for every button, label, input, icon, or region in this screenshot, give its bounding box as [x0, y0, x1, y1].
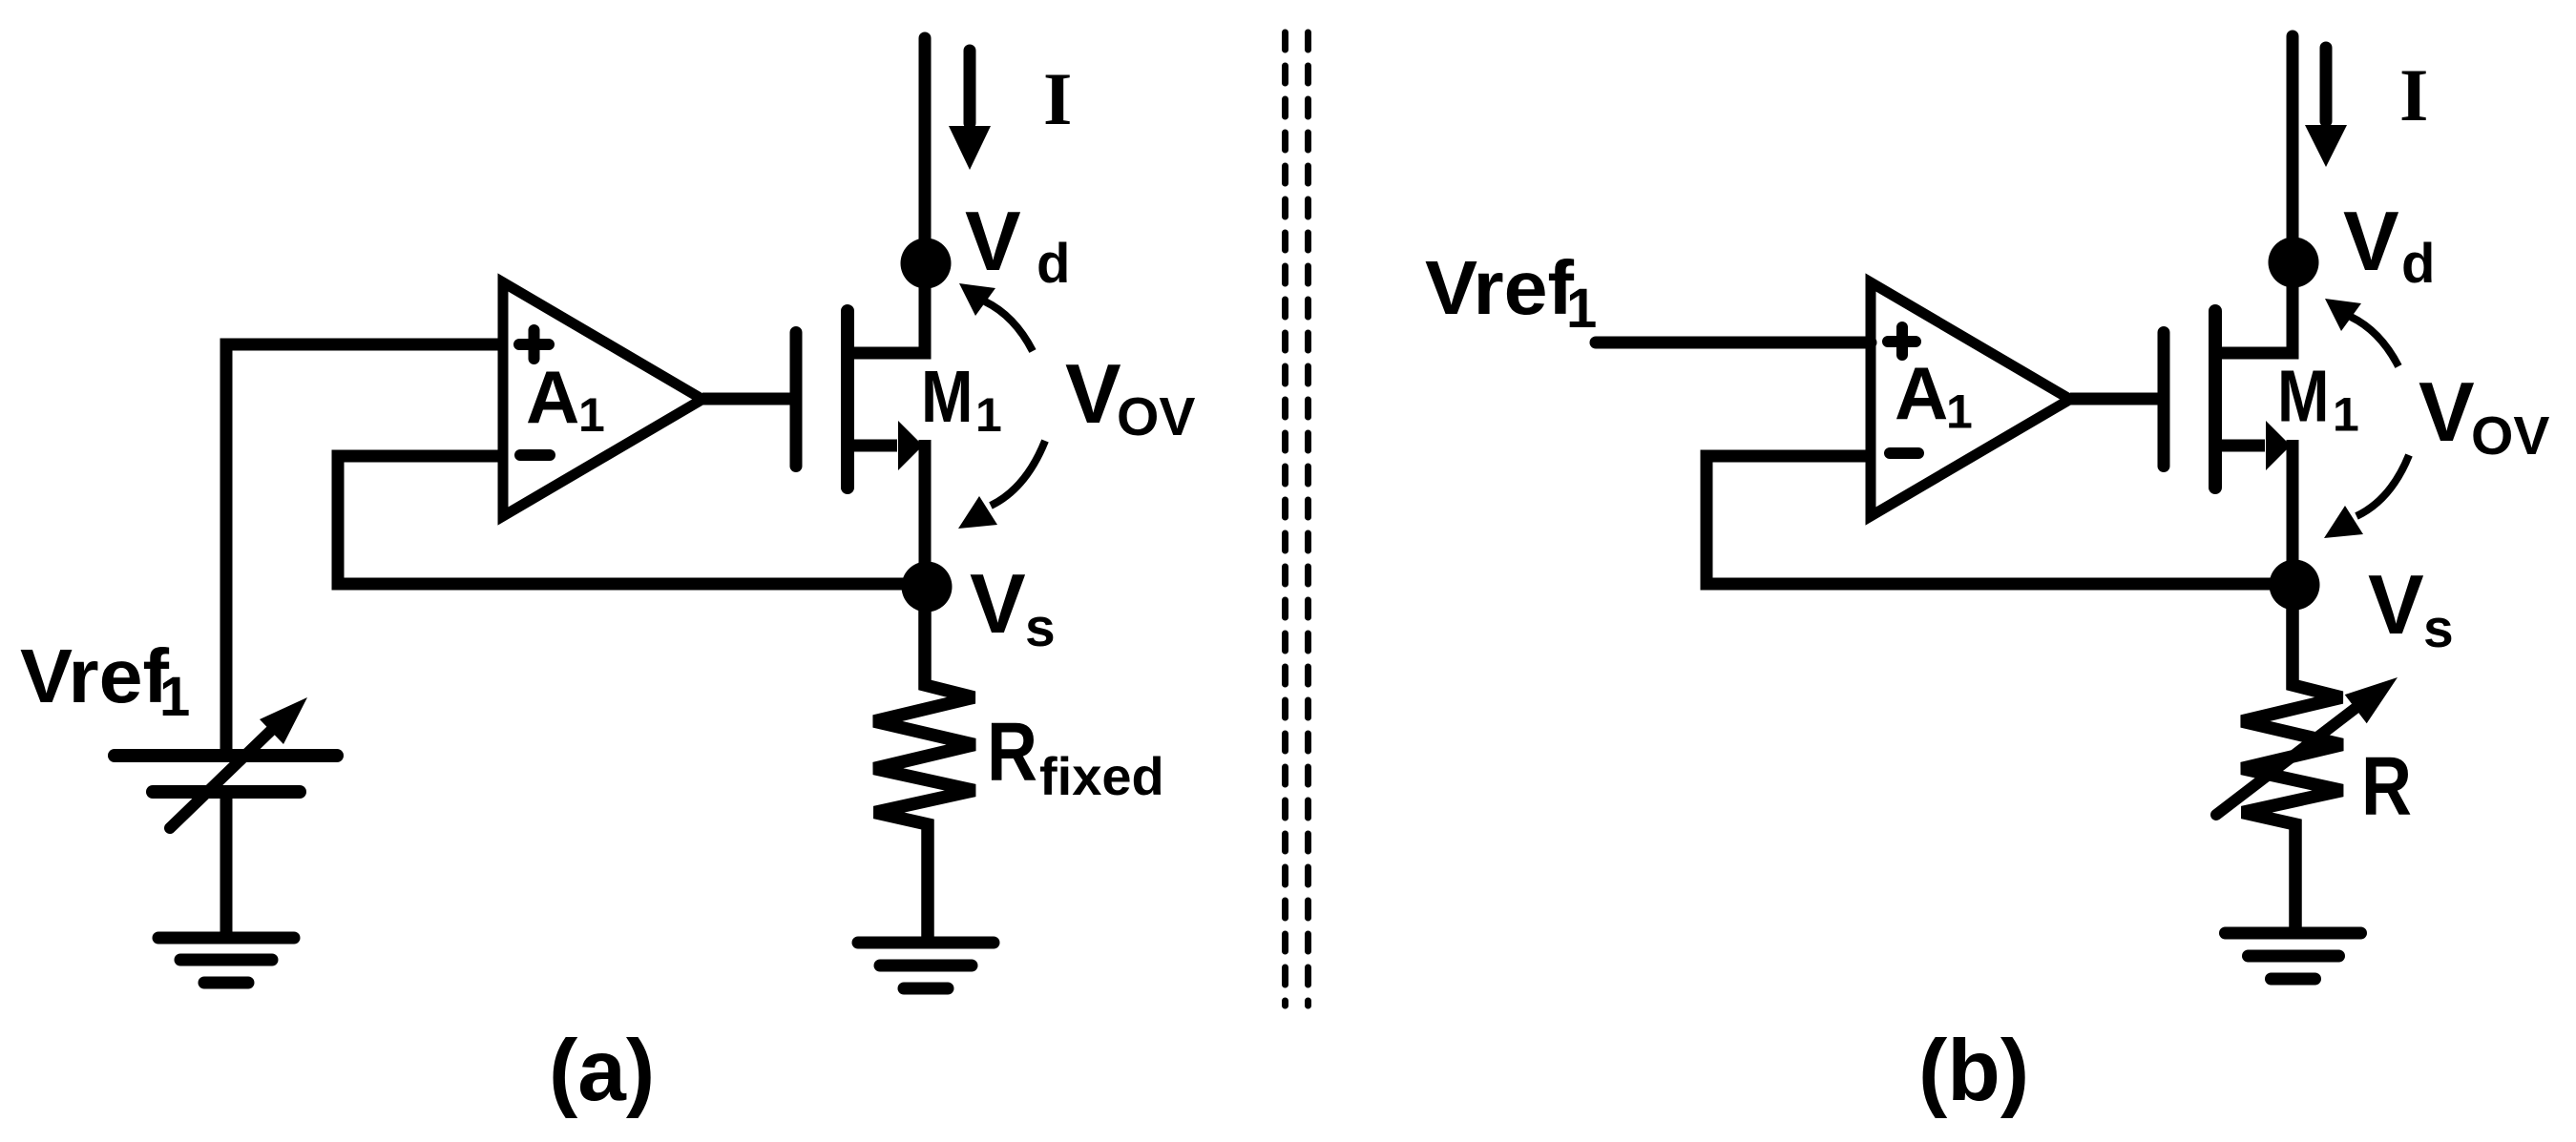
- current arrow I (a): [949, 51, 991, 170]
- wire: source to ground (a): [220, 799, 233, 938]
- svg-text:fixed: fixed: [1039, 746, 1164, 806]
- svg-text:d: d: [2401, 233, 2435, 295]
- current arrow I (b): [2305, 48, 2347, 167]
- resistor R (b): [2242, 585, 2342, 933]
- svg-text:V: V: [2368, 557, 2424, 652]
- label A1 (b): [1895, 351, 1973, 439]
- ground (a) left: [158, 938, 294, 983]
- wire: Vd node down and to transistor drain (a): [848, 263, 925, 353]
- svg-text:1: 1: [159, 666, 190, 728]
- label Vd (a): [965, 194, 1070, 295]
- svg-text:Vref: Vref: [1425, 245, 1574, 330]
- svg-text:A: A: [1895, 351, 1948, 435]
- svg-text:s: s: [1025, 597, 1056, 658]
- transistor M1 (b): channel bar: [2209, 311, 2222, 488]
- label Vs (b): [2368, 557, 2454, 659]
- svg-text:1: 1: [1566, 278, 1597, 340]
- divider dashed line left: [1282, 32, 1288, 1006]
- svg-text:A: A: [526, 355, 579, 439]
- transistor M1 (b): gate bar: [2158, 333, 2170, 467]
- wire: drain supply vertical (b): [2287, 36, 2299, 262]
- divider dashed line right: [1305, 32, 1311, 1006]
- wire: source down to Vs node (b): [2287, 440, 2299, 585]
- wire: feedback from Vs to - input (b): [1707, 456, 2294, 584]
- transistor M1 (a): channel bar: [841, 311, 854, 488]
- transistor M1 (b): source wire with arrow: [2215, 421, 2291, 470]
- svg-text:I: I: [1043, 57, 1072, 140]
- label VOV (b): [2419, 364, 2549, 467]
- ground (a) right: [858, 943, 994, 988]
- label VOV (a): [1065, 346, 1195, 447]
- svg-text:d: d: [1037, 233, 1070, 295]
- arrow VOV top (a): [959, 283, 1033, 351]
- op-amp A1 (b): minus input marker: [1890, 447, 1918, 459]
- svg-text:R: R: [2361, 740, 2412, 833]
- svg-text:(a): (a): [549, 1023, 655, 1119]
- label M1 (b): [2277, 356, 2359, 442]
- wire: op-amp output to gate (a): [702, 393, 790, 405]
- svg-text:R: R: [987, 706, 1037, 799]
- label M1 (a): [921, 356, 1002, 442]
- wire: drain supply vertical (a): [919, 38, 932, 263]
- label A1 (a): [526, 355, 605, 442]
- arrow VOV top (b): [2325, 299, 2398, 366]
- wire: op-amp output to gate (b): [2070, 393, 2158, 405]
- label Vref1 (b): [1425, 245, 1597, 340]
- op-amp A1 (b): plus input marker: [1888, 327, 1916, 355]
- svg-text:1: 1: [1946, 385, 1973, 439]
- svg-text:Vref: Vref: [20, 633, 169, 718]
- wire: source down to Vs node (a): [919, 440, 932, 587]
- resistor Rfixed (a): [874, 587, 974, 943]
- op-amp A1 (a): minus input marker: [520, 449, 550, 461]
- svg-text:V: V: [970, 556, 1026, 651]
- wire: Vd node down and to transistor drain (b): [2216, 262, 2293, 353]
- wire: Vref1 to + input (b): [1596, 337, 1871, 349]
- svg-text:I: I: [2399, 53, 2428, 136]
- node Vd (b): [2269, 238, 2319, 288]
- svg-text:M: M: [2277, 356, 2330, 438]
- variable source Vref1 (a): top plate: [115, 749, 337, 762]
- variable source Vref1 (a): adjust arrow: [170, 697, 307, 828]
- node Vs (b): [2270, 560, 2320, 611]
- label Vref1 (a): [20, 633, 190, 728]
- variable resistor R (b): adjust arrow: [2216, 677, 2398, 815]
- node Vd (a): [901, 239, 952, 289]
- svg-text:1: 1: [975, 388, 1002, 442]
- svg-text:OV: OV: [2471, 405, 2549, 467]
- wire: feedback from Vs to - input (a): [338, 456, 927, 584]
- op-amp A1 (b): triangle body: [1871, 282, 2070, 516]
- transistor M1 (a): source wire with arrow: [848, 421, 923, 470]
- svg-text:V: V: [965, 194, 1021, 288]
- variable source Vref1 (a): bottom plate: [153, 785, 300, 799]
- label Vs (a): [970, 556, 1056, 658]
- svg-text:OV: OV: [1117, 386, 1195, 447]
- node Vs (a): [902, 562, 953, 613]
- transistor Q M1 (a): gate bar: [790, 333, 803, 467]
- ground (b): [2226, 933, 2361, 979]
- op-amp A1 (a): plus input marker: [519, 330, 549, 359]
- arrow VOV bottom (a): [958, 441, 1045, 529]
- svg-text:(b): (b): [1918, 1023, 2029, 1119]
- arrow VOV bottom (b): [2324, 455, 2409, 538]
- svg-text:V: V: [2343, 194, 2399, 288]
- svg-text:V: V: [1065, 346, 1121, 441]
- label Rfixed (a): [987, 706, 1164, 806]
- op-amp U A1 (a): triangle body: [503, 282, 702, 516]
- label Vd (b): [2343, 194, 2435, 295]
- wire: + input from Vref source (a): [226, 344, 506, 750]
- svg-text:s: s: [2423, 598, 2454, 659]
- svg-text:1: 1: [2333, 388, 2359, 442]
- svg-text:1: 1: [578, 388, 605, 442]
- svg-text:M: M: [921, 356, 974, 438]
- svg-text:V: V: [2419, 364, 2475, 459]
